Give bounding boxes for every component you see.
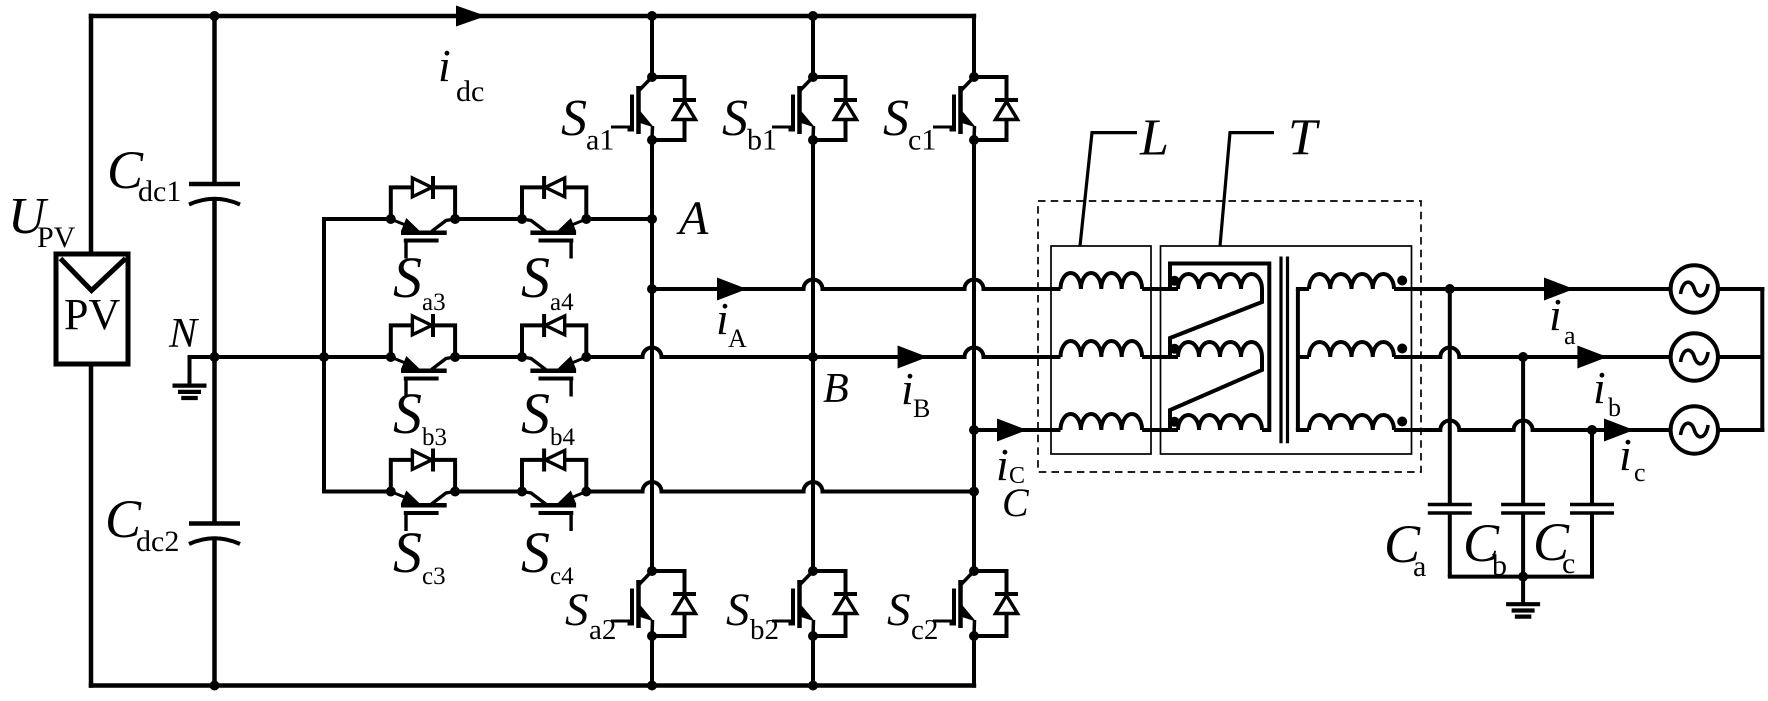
svg-text:i: i	[1549, 289, 1562, 340]
wire Ca tap upper	[1448, 289, 1452, 505]
junction phase C output	[969, 425, 979, 435]
capacitor C_c	[1570, 505, 1614, 514]
arrow i_c	[1604, 419, 1634, 442]
wire source b to right bus	[1718, 355, 1762, 359]
transformer secondary winding 1	[1296, 274, 1394, 289]
svg-text:S: S	[726, 584, 750, 636]
junction Cc tap	[1587, 425, 1597, 435]
svg-text:S: S	[521, 381, 550, 446]
svg-text:i: i	[1593, 362, 1606, 413]
svg-text:S: S	[722, 90, 748, 147]
svg-text:dc1: dc1	[138, 175, 181, 208]
wire left bus above PV	[89, 14, 94, 254]
wire Cb tap upper	[1521, 357, 1525, 505]
inductor L phase c	[1061, 414, 1143, 430]
svg-text:L: L	[1139, 110, 1169, 167]
junction Cb tap	[1518, 352, 1528, 362]
capacitor C_dc2	[189, 524, 240, 545]
arrow i_a	[1544, 278, 1574, 301]
primary dot 1	[1170, 276, 1180, 286]
wire Cc tap lower	[1590, 513, 1594, 577]
wire leg B middle	[811, 140, 815, 571]
wire leg C top	[972, 14, 976, 77]
wire row3 to leg C (hops over legs A,B)	[586, 482, 974, 492]
label S_c2	[887, 584, 938, 646]
wire leg B bottom	[811, 636, 815, 688]
wire cell-matrix left bus	[324, 219, 391, 492]
svg-text:S: S	[561, 90, 587, 147]
transistor S_b1 (IGBT with diode)	[772, 72, 857, 145]
junction top rail / DC bus	[210, 11, 220, 21]
svg-text:S: S	[393, 381, 422, 446]
junction bottom rail / DC bus	[210, 681, 220, 691]
wire right grid bus	[1760, 287, 1764, 432]
svg-text:S: S	[521, 520, 550, 585]
label U_PV	[8, 188, 76, 254]
wire row2 between cells	[455, 355, 522, 359]
wire output phase b (hop over Ca)	[1394, 348, 1671, 358]
svg-text:b4: b4	[550, 424, 576, 451]
transistor S_c2 (IGBT with diode)	[933, 566, 1018, 641]
transistor S_c3 cell	[386, 449, 460, 532]
junction row1 / leg A	[647, 214, 657, 224]
label S_a1	[561, 90, 614, 157]
svg-text:S: S	[393, 520, 422, 585]
wire leg C middle	[972, 140, 976, 571]
svg-text:b1: b1	[747, 124, 777, 157]
wire Lc to transformer	[1142, 428, 1170, 432]
wire row3 between cells	[455, 490, 522, 494]
svg-text:c: c	[1634, 458, 1646, 487]
svg-text:B: B	[823, 366, 849, 412]
svg-text:S: S	[883, 90, 909, 147]
inductor L phase b	[1061, 341, 1143, 357]
label S_c1	[883, 90, 936, 157]
svg-text:dc2: dc2	[136, 525, 179, 558]
primary dot 2	[1170, 344, 1180, 354]
transistor S_c1 (IGBT with diode)	[933, 72, 1018, 145]
svg-text:a: a	[1413, 550, 1426, 583]
transformer primary link 2-3	[1170, 357, 1262, 430]
svg-text:C: C	[1009, 463, 1025, 489]
junction top rail / leg B	[808, 11, 818, 21]
label S_a2	[565, 584, 616, 646]
label C_c	[1533, 512, 1575, 580]
svg-text:S: S	[521, 245, 550, 310]
ground at N	[173, 386, 207, 398]
wire leg B top	[811, 14, 815, 77]
label S_c3	[393, 520, 446, 590]
svg-text:a3: a3	[422, 289, 446, 316]
svg-text:a: a	[1564, 321, 1576, 350]
svg-text:i: i	[901, 363, 914, 414]
AC source phase b	[1671, 333, 1718, 380]
arrow i_dc on top rail	[456, 6, 486, 27]
transformer primary winding 1	[1170, 274, 1262, 289]
wire Cb tap lower	[1521, 513, 1525, 577]
wire La to transformer	[1142, 287, 1170, 291]
PV source box	[56, 254, 128, 364]
svg-text:b: b	[1608, 393, 1621, 422]
inductor box L	[1051, 246, 1151, 454]
svg-text:i: i	[1619, 429, 1632, 480]
AC source phase a	[1671, 265, 1718, 312]
label i_A	[716, 293, 747, 353]
wire bottom DC- rail	[89, 683, 976, 688]
svg-text:a1: a1	[586, 124, 614, 157]
svg-text:S: S	[565, 584, 589, 636]
wire left bus below PV	[89, 364, 94, 688]
junction capacitor rail / ground	[1518, 572, 1528, 582]
label i_dc	[438, 40, 484, 108]
transistor S_a3 cell	[386, 176, 460, 259]
svg-text:S: S	[887, 584, 911, 636]
wire row1 to leg A	[586, 217, 652, 221]
node N junction	[210, 352, 220, 362]
junction Ca tap	[1445, 284, 1455, 294]
transformer secondary star bus	[1296, 289, 1300, 430]
inductor L phase a	[1061, 273, 1143, 289]
transistor S_b2 (IGBT with diode)	[772, 566, 857, 641]
label L leader	[1080, 133, 1137, 246]
wire capacitor common rail	[1448, 575, 1594, 579]
svg-text:N: N	[168, 311, 199, 357]
label i_a	[1549, 289, 1576, 350]
transformer secondary winding 2	[1298, 342, 1394, 357]
wire DC bus bottom section	[212, 538, 217, 686]
wire output phase c (hops over Ca,Cb)	[1394, 421, 1671, 431]
wire row2 to leg B (hop over leg A)	[586, 348, 813, 358]
junction top rail / leg A	[647, 11, 657, 21]
transistor S_c4 cell	[517, 449, 591, 532]
capacitor C_a	[1428, 505, 1472, 514]
label PV	[64, 290, 120, 339]
wire row1 between cells	[455, 217, 522, 221]
AC source phase c	[1671, 406, 1718, 453]
wire leg A top	[650, 14, 654, 77]
svg-text:c2: c2	[911, 614, 938, 646]
transformer core	[1281, 257, 1288, 444]
secondary dot 2	[1397, 344, 1407, 354]
wire leg A bottom	[650, 636, 654, 688]
svg-text:T: T	[1288, 110, 1320, 167]
wire source a to right bus	[1718, 287, 1764, 291]
transformer primary top link	[1170, 264, 1269, 431]
label i_B	[901, 363, 930, 423]
label N	[168, 311, 199, 357]
svg-text:b3: b3	[422, 424, 447, 451]
wire N rail to cells	[215, 355, 391, 359]
label L	[1139, 110, 1169, 167]
label S_a4	[521, 245, 574, 316]
label i_c	[1619, 429, 1646, 487]
capacitor C_dc1	[189, 184, 240, 205]
arrow i_C	[997, 419, 1027, 442]
svg-text:B: B	[913, 394, 930, 423]
svg-text:b2: b2	[750, 614, 779, 646]
svg-text:i: i	[996, 439, 1009, 490]
label C_b	[1463, 513, 1507, 582]
transformer secondary winding 3	[1296, 415, 1394, 430]
wire top DC+ rail	[89, 14, 976, 19]
wire leg C bottom	[972, 636, 976, 688]
transformer primary link 1-2	[1170, 289, 1262, 357]
transistor S_a2 (IGBT with diode)	[611, 566, 696, 641]
wire leg A middle	[650, 140, 654, 571]
wire phase B output (hop over leg C)	[813, 348, 1061, 358]
node B label	[823, 366, 849, 412]
junction phase A output	[647, 284, 657, 294]
transistor S_b3 cell	[386, 314, 460, 397]
wire phase C output	[974, 428, 1061, 432]
svg-text:c4: c4	[550, 563, 574, 590]
svg-text:a2: a2	[589, 614, 616, 646]
label C_a	[1384, 514, 1426, 583]
transformer primary winding 2	[1170, 342, 1262, 357]
label S_b1	[722, 90, 777, 157]
capacitor C_b	[1501, 505, 1545, 514]
junction left bus / N rail	[319, 352, 329, 362]
wire DC bus top section	[212, 16, 217, 184]
wire phase A output (hops over legs B,C)	[652, 280, 1061, 290]
junction row2 / leg B	[808, 352, 818, 362]
transformer primary winding 3	[1170, 415, 1262, 430]
wire ground stub	[1521, 577, 1525, 604]
svg-text:S: S	[393, 245, 422, 310]
svg-text:a4: a4	[550, 289, 574, 316]
svg-text:A: A	[728, 324, 747, 353]
wire source c to right bus	[1718, 428, 1764, 432]
label C_dc2	[105, 489, 179, 558]
label S_b2	[726, 584, 779, 646]
label T leader	[1220, 133, 1274, 246]
wire Cc tap upper	[1590, 430, 1594, 505]
secondary dot 1	[1397, 276, 1407, 286]
PV chevron	[61, 259, 126, 291]
wire Ca tap lower	[1448, 513, 1452, 577]
svg-text:c1: c1	[908, 124, 936, 157]
svg-text:A: A	[676, 192, 709, 245]
transformer box T	[1161, 246, 1412, 454]
node C label	[1002, 480, 1030, 525]
wire DC bus middle section	[212, 199, 217, 524]
label S_b3	[393, 381, 447, 451]
secondary dot 3	[1397, 417, 1407, 427]
wire output phase a	[1394, 287, 1671, 291]
ground at capacitor rail	[1506, 604, 1540, 616]
label S_b4	[521, 381, 576, 451]
svg-text:dc: dc	[456, 75, 484, 108]
svg-text:i: i	[716, 293, 729, 344]
svg-text:PV: PV	[37, 221, 76, 254]
arrow i_B	[898, 346, 928, 369]
svg-text:i: i	[438, 40, 451, 91]
label C_dc1	[107, 140, 181, 208]
wire N ground stub	[190, 357, 215, 386]
svg-text:PV: PV	[64, 290, 120, 339]
transistor S_a1 (IGBT with diode)	[611, 72, 696, 145]
junction bottom rail / leg B	[808, 681, 818, 691]
node A label	[676, 192, 709, 245]
arrow i_A	[717, 278, 747, 301]
junction row3 / leg C	[969, 487, 979, 497]
transistor S_a4 cell	[517, 176, 591, 259]
wire Lb to transformer	[1142, 355, 1170, 359]
svg-text:c3: c3	[422, 563, 446, 590]
dashed boundary box	[1038, 201, 1421, 472]
label T	[1288, 110, 1320, 167]
label S_a3	[393, 245, 446, 316]
transistor S_b4 cell	[517, 314, 591, 397]
primary dot 3	[1170, 417, 1180, 427]
label i_C	[996, 439, 1025, 490]
label i_b	[1593, 362, 1621, 422]
arrow i_b	[1577, 346, 1607, 369]
label S_c4	[521, 520, 574, 590]
junction bottom rail / leg A	[647, 681, 657, 691]
